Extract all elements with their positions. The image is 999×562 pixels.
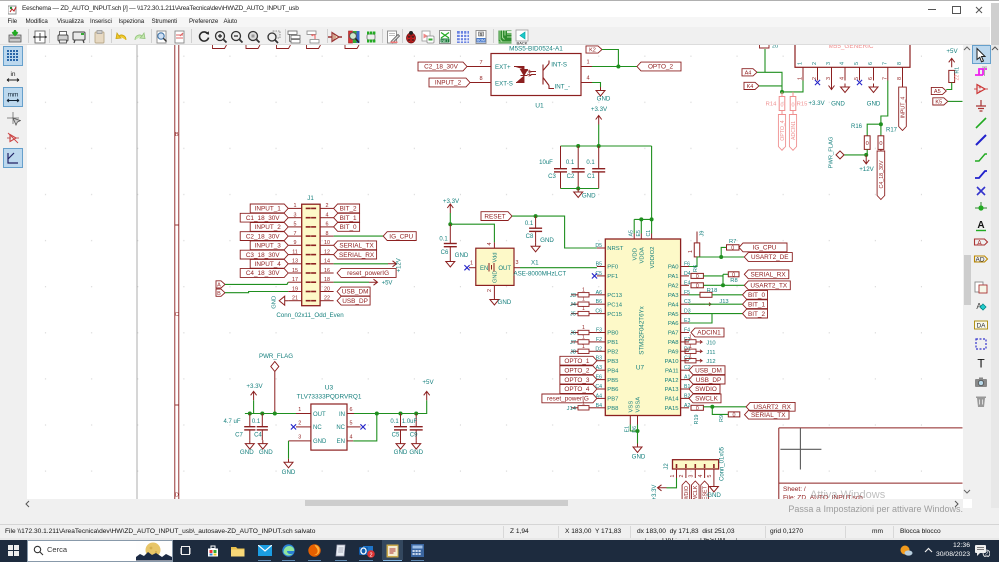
svg-text:2: 2 [487,289,493,292]
J1 pin 17 [288,281,302,283]
J1 pin 7 [288,235,302,237]
svg-text:DA: DA [976,322,986,329]
global label RESET at J2 [701,481,709,505]
U1 pin 8 [470,81,491,83]
global label USB_DM at U7 [689,365,725,374]
U2 pin 3 [831,67,833,80]
U7 pin D5 NRST [597,247,605,249]
svg-text:PA3: PA3 [668,293,679,299]
global label A4 [742,68,757,75]
J2 pin 4 [704,469,706,478]
wire capacitor top rail [561,145,652,147]
wire reset net [512,216,597,248]
svg-text:+3.3V: +3.3V [808,100,825,107]
resistor jumper J3 [571,293,578,295]
U7 pin B2 PA14 [681,397,689,399]
wire U2 pin7 down [881,80,888,124]
svg-text:K4: K4 [747,84,754,90]
wire grid backdrop [27,45,963,499]
svg-text:M55_GENERIC: M55_GENERIC [828,45,873,50]
svg-text:PA8: PA8 [668,340,679,346]
svg-text:C4_18_30V: C4_18_30V [879,160,885,188]
power +12V down [863,154,869,163]
wire J2 pin1 to +3.3V [667,478,677,488]
regulator U3 TLV73333PQDRVRQ1 body [311,404,347,450]
svg-text:GND: GND [540,237,554,244]
ground U2 pin6 [869,83,878,92]
svg-text:M5S5-BID0524-A1: M5S5-BID0524-A1 [509,45,563,52]
svg-text:OPTO_2: OPTO_2 [564,367,590,374]
svg-text:R19: R19 [694,414,700,424]
U3 pin4 EN [347,439,353,441]
global label A5 [931,87,946,94]
U7 pin B1 PA13 [681,388,689,390]
U2 pin 5 [859,67,861,80]
U2 pin5 no-connect [857,79,862,84]
wire X1 OUT to PF0 [520,266,597,268]
svg-text:1: 1 [582,325,585,331]
svg-text:GND: GND [498,299,512,306]
svg-text:14: 14 [324,258,330,264]
svg-text:BIT_0: BIT_0 [340,224,357,231]
svg-text:7: 7 [479,60,482,66]
svg-text:INPUT_2: INPUT_2 [255,224,282,231]
global label OPTO_4 at U7 [560,384,597,393]
capacitor C2 0.1 [577,146,579,169]
svg-text:U7: U7 [636,364,645,371]
J1 pin 22 [320,299,334,301]
svg-text:BIT_0: BIT_0 [748,292,765,299]
global label K2 [586,45,602,52]
global label C3_18_30V at J1 [240,250,288,259]
svg-text:1: 1 [688,249,694,252]
svg-text:1: 1 [670,474,676,477]
svg-text:11: 11 [292,249,298,255]
svg-text:C7: C7 [235,432,243,438]
svg-text:2: 2 [298,420,301,426]
svg-text:1: 1 [294,203,297,209]
junction a4k4 [780,89,784,93]
U7 pin E2 PA8 [681,340,689,342]
svg-text:1: 1 [798,62,804,65]
U1 internal transistor [543,60,554,88]
svg-text:J8: J8 [570,349,576,355]
svg-text:1: 1 [582,296,585,302]
svg-text:NC: NC [313,425,322,431]
U7 pin C3 PA4 [681,303,689,305]
svg-text:ADCIN1: ADCIN1 [791,120,797,139]
svg-text:GND: GND [240,449,254,456]
junction u3 rail a [248,411,252,415]
global label B [216,289,225,296]
svg-text:1: 1 [689,353,692,359]
U7 pin A3 PB4 [597,369,605,371]
svg-text:6: 6 [326,221,329,227]
svg-text:4: 4 [586,75,589,81]
svg-text:+5V: +5V [422,379,434,386]
junction rail c2 [576,144,580,148]
capacitor C7 4.7uF [249,413,251,426]
wire +3.3V down to rail [598,124,600,146]
wire EN to rail [353,413,377,440]
svg-text:C5: C5 [392,432,400,438]
svg-text:PA13: PA13 [665,387,680,393]
svg-text:INPUT_1: INPUT_1 [255,205,282,212]
svg-text:J1: J1 [307,195,314,202]
svg-text:280: 280 [760,45,769,46]
U7 pin C6 PC15 [597,312,605,314]
ground J2 pin5 [709,478,718,492]
svg-text:A4: A4 [745,70,752,76]
svg-text:GND: GND [597,95,611,102]
global label INPUT_2 at U1 [429,78,470,87]
global label IG_CPU [739,243,787,252]
X1 pin 3 OUT [514,266,520,268]
svg-text:X1: X1 [531,259,539,266]
U7 pin C1 PA10 [681,359,689,361]
global label K4 [744,82,759,89]
U1 pin 4 [581,81,592,83]
junction u3 rail b [260,411,264,415]
svg-text:5: 5 [350,420,353,426]
svg-text:GND: GND [867,100,881,107]
ground C5 [396,440,405,449]
global label USB_DP at J1 [337,296,370,305]
U7 pin E6 PB5 [597,378,605,380]
svg-text:12: 12 [324,249,330,255]
junction bottom rail [576,186,580,190]
U7 pin D3 PA5 [681,312,689,314]
svg-text:T: T [977,356,985,370]
junction u3 rail c [273,411,277,415]
svg-text:J4: J4 [570,302,577,308]
svg-text:+5V: +5V [382,280,393,286]
svg-text:1: 1 [582,343,585,349]
svg-text:2: 2 [812,77,818,80]
svg-text:PA4: PA4 [668,302,679,308]
svg-text:1: 1 [582,306,585,312]
U7 pin C2 PA11 [681,369,689,371]
svg-text:10: 10 [324,240,330,246]
power +3.3V above capacitor bank [596,115,602,124]
PF1 no-connect [592,273,597,278]
global label BIT_1 at J1 [334,213,360,222]
svg-text:1: 1 [586,59,589,65]
junction PA0 net [719,255,723,259]
svg-text:+5V: +5V [946,48,958,55]
svg-text:1: 1 [298,407,301,413]
svg-text:PA2: PA2 [668,283,679,289]
svg-text:4: 4 [487,242,493,245]
svg-text:22: 22 [955,74,961,80]
svg-text:R16: R16 [851,124,863,130]
svg-text:2: 2 [369,552,372,558]
wire J1 pin8 to IG_CPU [334,235,384,237]
svg-text:4: 4 [326,212,329,218]
U7 pin B5 PF0 [597,265,605,267]
resistor 0 on PA15 [691,405,703,410]
svg-text:10uF: 10uF [539,160,553,166]
svg-text:IN: IN [339,411,345,417]
svg-text:GND: GND [831,100,845,107]
svg-text:J2: J2 [664,462,670,469]
svg-text:D4: D4 [684,270,691,276]
svg-text:in: in [10,71,15,78]
U7 pin A2 PA15 [681,406,689,408]
resistor R17 [880,124,882,136]
svg-text:INPUT_2: INPUT_2 [435,79,462,86]
U3 pin3 GND [289,439,311,441]
svg-text:R1: R1 [955,66,961,73]
svg-text:C1: C1 [587,174,595,180]
svg-text:1: 1 [689,343,692,349]
global label OPTO_2 [637,62,681,71]
svg-text:PF1: PF1 [607,274,618,280]
global label C2_18_30V at J1 [240,231,288,240]
J1 pin 16 [320,272,334,274]
svg-text:SERIAL_TX: SERIAL_TX [751,411,786,418]
svg-text:VDDIO2: VDDIO2 [650,246,656,268]
global label C1_18_30V at J1 [240,213,288,222]
ground C4 [258,440,267,449]
svg-text:PWR_FLAG: PWR_FLAG [829,136,835,168]
svg-text:C9: C9 [410,432,418,438]
ground C7 [245,440,254,449]
resistor jumper J5 [571,312,578,314]
J1 pin 3 [288,216,302,218]
U2 pin2 no-connect [815,79,820,84]
svg-text:NC: NC [336,425,345,431]
power +5V at U3 [424,391,430,400]
power flag at +12V [836,150,844,158]
svg-text:PA6: PA6 [668,321,679,327]
global label OPTO_2 at U7 [560,365,597,374]
wire PA0 to R7 and USART2_DE [689,257,697,266]
wire PA6 joins BIT_2 [689,313,712,322]
ground capacitor bank [574,188,583,197]
svg-text:GND: GND [632,453,646,460]
svg-text:ADCIN1: ADCIN1 [697,329,721,336]
wire capacitor bottom rail [561,187,599,189]
junction PA15 [710,404,714,408]
wire K5 right [948,100,963,102]
svg-text:BIT_2: BIT_2 [748,310,765,317]
global label ADCIN1 vertical pink [789,114,796,150]
svg-text:PB8: PB8 [607,406,619,412]
svg-text:PA14: PA14 [665,396,680,402]
svg-text:USB_DP: USB_DP [696,376,722,383]
U2 pin 6 [873,67,875,80]
svg-text:SWCLK: SWCLK [693,485,699,499]
svg-text:6: 6 [868,77,874,80]
resistor jumper J4 [571,303,578,305]
svg-text:VDDA: VDDA [640,247,646,263]
svg-text:EN: EN [480,265,488,271]
capacitor C5 0.1 [400,413,402,426]
svg-text:R9: R9 [719,415,725,422]
svg-text:RESET: RESET [484,213,505,220]
global label OPTO_4 vertical pink [778,114,785,150]
svg-text:0: 0 [696,283,699,289]
U7 pin D6 VSSA [637,415,639,424]
J1 pin 21 [288,299,302,301]
U7 pin A6 PC13 [597,293,605,295]
svg-text:EXT-S: EXT-S [495,80,513,87]
svg-text:PF0: PF0 [607,264,619,270]
J1 pin 8 [320,235,334,237]
resistor R9 [728,411,740,416]
global label INPUT_2 at J1 [250,222,288,231]
svg-text:C4_18_30V: C4_18_30V [246,270,280,277]
svg-text:4: 4 [350,434,353,440]
resistor jumper J9 [696,231,698,242]
wire vdd stubs [633,219,635,233]
svg-text:OPTO_4: OPTO_4 [564,386,590,393]
svg-text:R14: R14 [766,101,777,107]
svg-text:3: 3 [516,260,519,266]
svg-text:+12V: +12V [859,166,874,173]
resistor jumper J6 [571,331,578,333]
svg-text:BIT_1: BIT_1 [340,214,357,221]
global label C4_18_30V at J1 [240,268,288,277]
U3 pin2 NC [296,425,311,427]
svg-text:reset_powerIG: reset_powerIG [347,270,389,277]
wire A to J1 pin17 [225,282,288,284]
svg-text:R8: R8 [730,277,737,283]
X1 pin 2 GND [493,285,495,296]
svg-text:+3.3V: +3.3V [591,106,608,113]
svg-text:PB3: PB3 [607,358,619,364]
U3 pin5 NC [347,425,361,427]
resistor network U2 body [795,28,910,67]
svg-text:SERIAL_RX: SERIAL_RX [750,271,786,278]
svg-text:PC13: PC13 [607,293,622,299]
wire PA4 to BIT_1 [689,303,743,305]
ground X1 [490,296,499,305]
global label OPTO_3 at U7 [560,375,597,384]
U3 pin6 IN [347,412,354,414]
J2 pin 5 [713,469,715,478]
svg-text:4: 4 [840,62,846,65]
svg-text:EN: EN [337,439,345,445]
svg-text:EXT+: EXT+ [495,63,511,70]
resistor jumper J11 [685,349,696,353]
J1 pin 2 [320,207,334,209]
global label INPUT_4 vertical at U2 pin8 [902,80,904,87]
svg-text:1: 1 [798,77,804,80]
svg-text:0.1: 0.1 [252,418,261,424]
wire vss to ground [630,424,637,431]
svg-text:K5: K5 [935,99,942,105]
svg-text:R18: R18 [707,288,718,294]
cursor crosshair [780,428,821,470]
svg-text:PA15: PA15 [665,406,680,412]
svg-text:GND: GND [409,449,423,456]
junction rail c1 [597,144,601,148]
U2 pin 8 [902,67,904,80]
global label USART2_TX [744,280,790,289]
U7 pin D2 PB2 [597,350,605,352]
wire PA15 net [703,405,746,407]
wire +3.3V to X1 vdd [450,213,494,242]
svg-text:PB2: PB2 [607,349,618,355]
svg-text:J12: J12 [706,359,715,365]
resistor R1 top right [949,70,955,82]
junction u3 out c [414,411,418,415]
resistor R6 on PA1 [691,273,703,278]
svg-text:0.1: 0.1 [566,160,575,166]
global label SWDIO at U7 [689,384,720,393]
svg-text:PB6: PB6 [607,387,619,393]
svg-text:SWDIO: SWDIO [695,386,717,393]
U2 pin 2 [817,67,819,80]
svg-text:2u: 2u [772,45,778,50]
svg-text:reset_powerIG: reset_powerIG [547,395,589,402]
svg-text:SWCLK: SWCLK [695,395,718,402]
mcu U7 STM32F042T6Yx body [605,239,680,416]
svg-text:A: A [977,220,984,231]
wire R1 to A5 [946,82,951,89]
svg-text:22: 22 [324,295,330,301]
svg-text:A5: A5 [629,230,635,236]
svg-text:PA12: PA12 [665,377,679,383]
connector J1 body [302,204,320,306]
svg-text:ASE-8000MHzLCT: ASE-8000MHzLCT [514,270,567,277]
U1 internal led [514,66,528,82]
capacitor C3 10uF [560,146,562,169]
global label reset_powerIG at U7 [542,394,597,403]
svg-text:B: B [217,290,221,296]
svg-text:0: 0 [733,412,736,418]
U7 pin D4 PA1 [681,274,689,276]
svg-text:J11: J11 [707,349,716,355]
svg-text:0: 0 [696,405,699,411]
svg-text:J7: J7 [570,339,576,345]
svg-text:INPUT_4: INPUT_4 [901,96,907,118]
svg-text:E1: E1 [625,425,631,431]
svg-text:2: 2 [326,203,329,209]
svg-text:R6: R6 [693,264,699,271]
svg-text:+12V: +12V [397,258,403,272]
U1 pin 1 [581,65,592,67]
svg-text:PC15: PC15 [607,311,622,317]
resistor R15 pink highlighted [792,91,794,96]
svg-text:9: 9 [294,240,297,246]
U7 pin A1 PA12 [681,378,689,380]
svg-text:5: 5 [854,77,860,80]
svg-text:A: A [977,239,982,246]
ground at U1 pin 4 [596,87,605,96]
wire A4 K4 net [757,71,765,73]
svg-text:NRST: NRST [607,246,623,252]
junction u3 out a [375,411,379,415]
svg-text:GND: GND [455,252,469,259]
J1 pin 19 [288,290,302,292]
svg-text:21: 21 [292,295,298,301]
svg-text:INPUT_4: INPUT_4 [255,261,282,268]
global label USB_DP at U7 [689,375,725,384]
power +3.3V at J2 [658,484,667,490]
svg-text:1.0uF: 1.0uF [402,418,418,424]
J2 pin 1 [676,469,678,478]
svg-text:0: 0 [879,140,882,146]
U7 pin A5 VDD [633,233,635,239]
svg-text:SERIAL_TX: SERIAL_TX [339,242,374,249]
resistor R14 pink highlighted [781,91,783,96]
J1 pin 4 [320,216,334,218]
svg-text:8: 8 [897,77,903,80]
svg-text:BIT_1: BIT_1 [748,301,765,308]
